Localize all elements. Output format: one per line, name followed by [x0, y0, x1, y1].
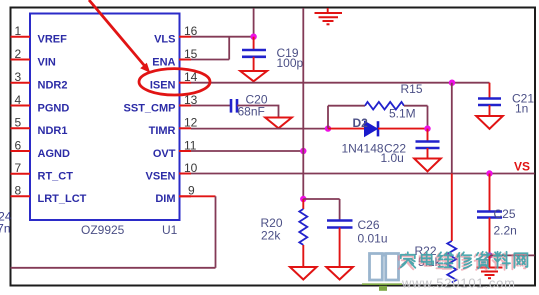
pin 16 VLS	[154, 24, 198, 46]
wire to right frame	[490, 254, 535, 256]
capacitor C21	[478, 99, 501, 106]
wire C20 right lead	[237, 106, 279, 118]
pin 3 NDR2	[11, 70, 68, 92]
wire DIM vertical down	[215, 196, 217, 267]
ground for C21	[476, 116, 503, 129]
svg-text:AGND: AGND	[38, 148, 70, 160]
capacitor C26	[327, 221, 353, 228]
wire R22 vertical below VS	[451, 174, 453, 242]
svg-text:4: 4	[15, 93, 22, 107]
ground for C20	[265, 118, 292, 129]
svg-text:2: 2	[15, 47, 22, 61]
annotation ellipse around ISEN	[139, 69, 210, 95]
diode D2	[365, 121, 379, 136]
svg-text:RT_CT: RT_CT	[38, 171, 74, 183]
wire R15 top right	[404, 105, 428, 107]
svg-text:OVT: OVT	[153, 148, 176, 160]
capacitor C25	[477, 212, 502, 218]
wire diode cathode	[378, 128, 428, 130]
wire C22 top lead	[427, 129, 429, 142]
svg-text:C26: C26	[358, 218, 380, 232]
svg-text:2.2n: 2.2n	[494, 224, 517, 238]
op-amp U1 (IC OZ9925 body)	[30, 14, 180, 221]
annotation arrowhead	[140, 63, 150, 73]
pin 4 PGND	[11, 93, 70, 115]
node R20/C26 junction	[300, 196, 306, 202]
wire DIM bottom horizontal	[11, 267, 216, 269]
capacitor C22	[416, 142, 440, 149]
pin 5 NDR1	[11, 116, 68, 138]
pin 6 AGND	[11, 138, 70, 160]
svg-text:TIMR: TIMR	[149, 125, 176, 137]
capacitor C20	[231, 99, 237, 113]
svg-text:VIN: VIN	[38, 56, 56, 68]
svg-text:VREF: VREF	[38, 34, 68, 46]
svg-text:OZ9925: OZ9925	[81, 223, 125, 237]
wire R20 top lead	[302, 199, 304, 209]
svg-text:R15: R15	[401, 82, 423, 96]
svg-text:3: 3	[15, 70, 22, 84]
resistor R22	[447, 241, 456, 283]
svg-text:100p: 100p	[277, 56, 304, 70]
pin 1 VREF	[11, 24, 68, 46]
pin 15 ENA	[152, 47, 197, 69]
wire C26 top lead	[339, 199, 341, 221]
svg-text:0.01u: 0.01u	[358, 232, 388, 246]
svg-text:PGND: PGND	[38, 102, 70, 114]
svg-text:1: 1	[15, 24, 22, 38]
svg-text:NDR1: NDR1	[38, 125, 68, 137]
pin 12 TIMR	[149, 116, 198, 138]
svg-text:ISEN: ISEN	[150, 80, 176, 92]
resistor R20	[299, 209, 307, 245]
wire R22 vertical from ISEN net	[451, 83, 453, 174]
svg-text:12: 12	[184, 116, 198, 130]
pin 8 LRT_LCT	[11, 184, 87, 206]
svg-text:DIM: DIM	[155, 193, 175, 205]
node OVT junction	[300, 148, 306, 154]
wire C26 branch horizontal	[303, 198, 339, 200]
svg-text:U1: U1	[162, 223, 178, 237]
watermark logo book icon	[370, 253, 399, 281]
wire ISEN net horizontal	[191, 82, 490, 84]
wire ENA vertical up	[228, 37, 230, 60]
wire DIM horizontal	[179, 195, 216, 197]
wire ENA horizontal	[191, 59, 229, 61]
pin 11 OVT	[153, 138, 197, 160]
svg-text:1.0u: 1.0u	[381, 151, 404, 165]
svg-text:VS: VS	[514, 160, 530, 174]
svg-text:NDR2: NDR2	[38, 80, 68, 92]
wire VS net (VSEN)	[191, 173, 535, 175]
ground for C19	[240, 71, 267, 81]
svg-text:5: 5	[15, 116, 22, 130]
svg-text:ENA: ENA	[152, 56, 175, 68]
svg-text:6: 6	[15, 138, 22, 152]
svg-text:VLS: VLS	[154, 34, 175, 46]
watermark logo green base	[362, 283, 402, 285]
svg-text:5.1M: 5.1M	[389, 107, 416, 121]
wire R15 loop left vertical	[327, 106, 329, 129]
wire C19 top lead	[253, 37, 255, 50]
svg-text:VSEN: VSEN	[146, 170, 176, 182]
ground for C26	[326, 267, 353, 280]
ground for R20	[290, 267, 317, 280]
wire SST_CMP to C20	[191, 105, 231, 107]
wire C25 top lead	[489, 174, 491, 212]
wire diode anode	[328, 128, 365, 130]
svg-text:SST_CMP: SST_CMP	[124, 102, 176, 114]
svg-text:1n: 1n	[515, 102, 528, 116]
resistor R15	[365, 102, 404, 110]
wire C25 bottom lead	[489, 218, 491, 256]
svg-text:7: 7	[15, 161, 22, 175]
svg-text:D2: D2	[353, 116, 369, 130]
wire vertical bus x=303	[302, 8, 304, 199]
wire R15 top left	[328, 105, 365, 107]
annotation line	[89, 0, 146, 68]
wire VLS net horizontal	[191, 36, 254, 38]
svg-text:22k: 22k	[261, 229, 281, 243]
earth ground for C25	[477, 255, 503, 278]
wire C21 bottom lead	[489, 105, 491, 116]
svg-text:www.520101.com: www.520101.com	[401, 276, 516, 291]
node ISEN/C21/R22 junction	[449, 80, 455, 86]
pin 2 VIN	[11, 47, 56, 69]
wire C26 bottom lead	[339, 228, 341, 268]
wire VLS net up to frame	[253, 8, 255, 37]
svg-text:7n: 7n	[0, 222, 11, 236]
node C25 ground junction	[486, 252, 492, 258]
node VS/C25 junction	[486, 170, 492, 176]
node VLS junction	[250, 34, 256, 40]
svg-text:8: 8	[15, 184, 22, 198]
node R15/D2/C22 junction	[424, 125, 430, 131]
ground for C22	[414, 159, 441, 172]
pin 9 DIM	[155, 184, 195, 206]
svg-text:LRT_LCT: LRT_LCT	[38, 193, 87, 205]
wire R20 bottom lead	[302, 245, 304, 267]
wire TIMR net	[191, 128, 328, 130]
wire C22 bottom lead	[427, 148, 429, 159]
earth ground top	[315, 8, 343, 24]
svg-text:68nF: 68nF	[238, 105, 265, 119]
wire R15 loop right vertical	[427, 106, 429, 129]
pin 7 RT_CT	[11, 161, 74, 183]
wire C19 bottom lead	[253, 57, 255, 71]
wire C21 top lead	[489, 83, 491, 99]
wire OVT net	[191, 150, 303, 152]
capacitor C19	[242, 50, 266, 57]
node TIMR left junction	[325, 125, 331, 131]
pin 13 SST_CMP	[124, 93, 198, 115]
pin 10 VSEN	[146, 161, 198, 183]
svg-text:1N4148: 1N4148	[342, 142, 384, 156]
svg-text:C25: C25	[494, 207, 516, 221]
pin 14 ISEN	[150, 70, 198, 92]
